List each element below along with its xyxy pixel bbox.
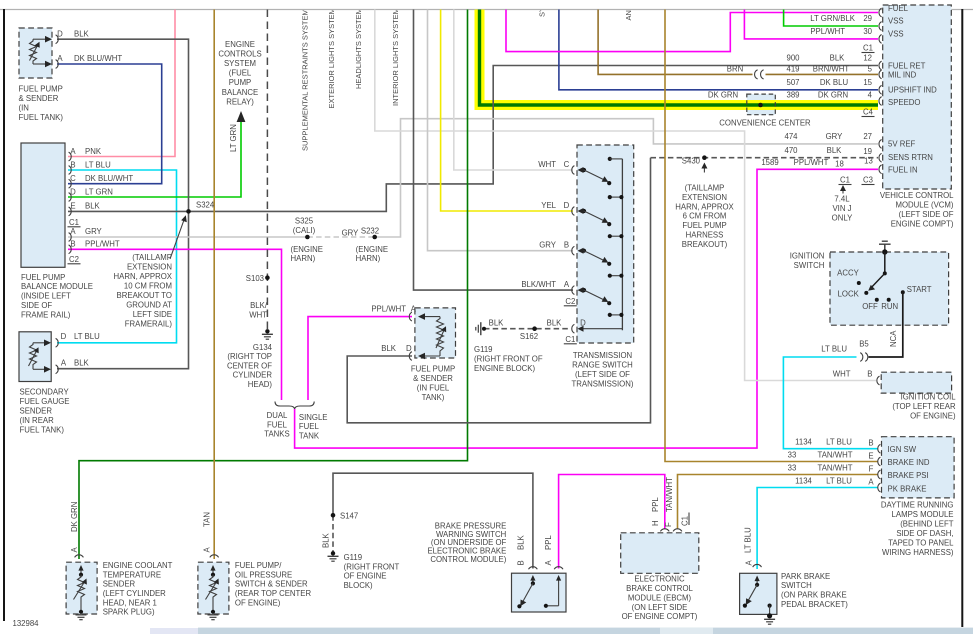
- svg-text:SPARK PLUG): SPARK PLUG): [103, 608, 155, 617]
- svg-text:S232: S232: [361, 226, 379, 235]
- splice S325: [305, 235, 310, 240]
- svg-text:BRAKE CONTROL: BRAKE CONTROL: [626, 584, 693, 593]
- svg-text:S103: S103: [246, 274, 264, 283]
- wire: DK BLU to VCM pin15 UPSHIFT IND: [559, 10, 878, 90]
- svg-text:S147: S147: [340, 512, 358, 521]
- svg-text:TAN/WHT: TAN/WHT: [818, 450, 853, 459]
- wire: LT GRN/BLK to VCM pin29 VSS: [784, 10, 878, 27]
- vehicle control module (VCM): [879, 5, 951, 189]
- svg-text:TANK): TANK): [422, 393, 445, 402]
- svg-text:LT BLU: LT BLU: [85, 160, 111, 169]
- svg-text:BREAKOUT TO: BREAKOUT TO: [117, 291, 172, 300]
- svg-text:B5: B5: [859, 340, 869, 349]
- svg-text:WIRING HARNESS): WIRING HARNESS): [882, 548, 954, 557]
- svg-text:ENGINE COOLANT: ENGINE COOLANT: [103, 561, 173, 570]
- svg-text:FRAME RAIL): FRAME RAIL): [21, 311, 71, 320]
- svg-text:LEFT SIDE: LEFT SIDE: [133, 310, 172, 319]
- svg-text:OFF: OFF: [862, 302, 878, 311]
- svg-text:GROUND AT: GROUND AT: [126, 300, 172, 309]
- svg-text:HEAD): HEAD): [248, 380, 273, 389]
- wire: speedo highlighted DK GRN 389 (yellow highlight): [480, 10, 879, 106]
- svg-text:419: 419: [786, 65, 799, 74]
- svg-text:S325: S325: [295, 217, 314, 226]
- svg-text:HARN, APPROX: HARN, APPROX: [114, 272, 173, 281]
- svg-text:TANK: TANK: [299, 432, 320, 441]
- svg-text:FUEL PUMP: FUEL PUMP: [19, 85, 63, 94]
- svg-text:D: D: [70, 187, 76, 196]
- svg-text:FUEL RET: FUEL RET: [888, 62, 926, 71]
- svg-text:1134: 1134: [795, 437, 812, 446]
- engine coolant temperature sender: [66, 555, 97, 620]
- svg-text:DK GRN: DK GRN: [70, 502, 79, 532]
- splice S430: [702, 155, 707, 160]
- svg-text:132984: 132984: [13, 619, 40, 628]
- wire: BLK dashed S147 to G119: [332, 515, 334, 551]
- svg-text:OIL PRESSURE: OIL PRESSURE: [235, 570, 292, 579]
- ignition switch: [830, 241, 949, 325]
- wire: PPL/WHT to VCM pin30 VSS: [744, 10, 878, 39]
- svg-text:TAN/WHT: TAN/WHT: [818, 463, 853, 472]
- svg-text:7.4L: 7.4L: [834, 195, 850, 204]
- svg-text:BLK/: BLK/: [250, 301, 268, 310]
- svg-text:SWITCH: SWITCH: [794, 261, 825, 270]
- svg-text:(ENGINE: (ENGINE: [356, 245, 389, 254]
- svg-text:PPL: PPL: [544, 535, 553, 550]
- svg-text:GRY: GRY: [342, 229, 360, 238]
- svg-text:S162: S162: [520, 332, 538, 341]
- svg-text:A: A: [868, 477, 874, 486]
- svg-text:MODULE (VCM): MODULE (VCM): [895, 201, 953, 210]
- ground G119 lower: [328, 551, 339, 561]
- svg-text:TAN/WHT: TAN/WHT: [665, 477, 674, 512]
- svg-text:LOCK: LOCK: [838, 289, 860, 298]
- wire: TAN/WHT 33 top to DRL E BRAKE IND: [665, 10, 878, 462]
- wire: WHT to range switch C: [454, 10, 573, 171]
- svg-text:HEAD, NEAR 1: HEAD, NEAR 1: [103, 598, 157, 607]
- wire: DK BLU/WHT sender A to module C: [57, 64, 162, 184]
- svg-text:BREAKOUT): BREAKOUT): [682, 240, 728, 249]
- svg-text:(IN REAR: (IN REAR: [20, 416, 55, 425]
- convenience center fill: [747, 94, 776, 115]
- svg-text:1589: 1589: [761, 158, 778, 167]
- svg-text:A: A: [544, 560, 553, 566]
- svg-text:IGN SW: IGN SW: [888, 445, 917, 454]
- svg-text:BLK: BLK: [85, 202, 101, 211]
- svg-text:D: D: [580, 319, 586, 328]
- svg-text:SECONDARY: SECONDARY: [20, 388, 70, 397]
- ground G134: [262, 329, 273, 339]
- svg-text:A: A: [745, 560, 754, 566]
- svg-text:HARN): HARN): [356, 254, 381, 263]
- wire: BLK dashed G119 to range switch D via S162: [484, 328, 571, 330]
- fuel pump balance module: [21, 143, 71, 267]
- wire: TAN/WHT 33 DRL F to EBCM F: [678, 475, 879, 529]
- svg-text:SIDE OF: SIDE OF: [21, 301, 52, 310]
- wire: BLK brake pressure switch B to S147: [333, 473, 533, 568]
- svg-text:INTERIOR LIGHTS SYSTEM: INTERIOR LIGHTS SYSTEM: [391, 8, 400, 106]
- svg-text:SINGLE: SINGLE: [299, 413, 328, 422]
- svg-text:GRY: GRY: [539, 241, 557, 250]
- svg-text:ENGINE: ENGINE: [225, 40, 255, 49]
- svg-text:D: D: [406, 344, 412, 353]
- wire: PPL/WHT module C2-B to dual-tank brace: [68, 249, 282, 400]
- wire: LT BLU 1134 DRL A to park brake switch: [757, 488, 878, 570]
- svg-text:B: B: [516, 560, 525, 565]
- svg-text:HEADLIGHTS SYSTEM: HEADLIGHTS SYSTEM: [354, 8, 363, 89]
- svg-text:LT BLU: LT BLU: [744, 527, 753, 553]
- svg-text:B: B: [867, 370, 872, 379]
- wire: LT GRN module D to engine controls arrow: [68, 121, 241, 197]
- wire: BLK 470 dashed to VCM pin19 SENS RTRN: [651, 157, 879, 159]
- svg-text:C2: C2: [565, 297, 575, 306]
- svg-text:15: 15: [863, 78, 872, 87]
- svg-text:TAPED TO PANEL: TAPED TO PANEL: [888, 539, 954, 548]
- svg-text:BLK: BLK: [322, 532, 331, 548]
- svg-text:BLK: BLK: [381, 344, 397, 353]
- svg-text:4: 4: [868, 91, 873, 100]
- splice S162: [532, 326, 537, 331]
- svg-text:E: E: [868, 451, 873, 460]
- svg-text:SIDE OF DASH,: SIDE OF DASH,: [896, 529, 953, 538]
- svg-text:(LEFT CYLINDER: (LEFT CYLINDER: [103, 589, 166, 598]
- svg-text:SUPPLEMENTAL RESTRAINTS SYSTEM: SUPPLEMENTAL RESTRAINTS SYSTEM: [301, 9, 310, 151]
- svg-text:10 CM FROM: 10 CM FROM: [124, 281, 172, 290]
- svg-text:MIL IND: MIL IND: [888, 71, 917, 80]
- splice S103: [265, 275, 270, 280]
- svg-text:(LEFT SIDE OF: (LEFT SIDE OF: [575, 370, 630, 379]
- wire: GRY module A to VCM pin27 5V REF: [68, 119, 878, 237]
- svg-text:BALANCE MODULE: BALANCE MODULE: [21, 282, 93, 291]
- svg-text:C2: C2: [69, 255, 79, 264]
- svg-text:WHT: WHT: [833, 370, 851, 379]
- svg-text:PUMP: PUMP: [229, 78, 252, 87]
- svg-text:D: D: [57, 29, 63, 38]
- svg-text:(LEFT SIDE OF: (LEFT SIDE OF: [899, 210, 954, 219]
- svg-text:LT BLU: LT BLU: [821, 345, 847, 354]
- svg-text:33: 33: [788, 463, 797, 472]
- svg-text:HARNESS: HARNESS: [686, 231, 724, 240]
- svg-text:CENTER OF: CENTER OF: [227, 361, 272, 370]
- wire: NCA ignition switch START to B5: [869, 292, 903, 357]
- svg-text:SENDER: SENDER: [20, 406, 53, 415]
- svg-text:BLOCK): BLOCK): [344, 581, 373, 590]
- svg-text:HARN, APPROX: HARN, APPROX: [675, 202, 734, 211]
- svg-text:FUEL PUMP/: FUEL PUMP/: [235, 561, 282, 570]
- svg-text:PPL/WHT: PPL/WHT: [810, 27, 845, 36]
- svg-text:(IN: (IN: [19, 104, 29, 113]
- svg-text:UPSHIFT IND: UPSHIFT IND: [888, 86, 937, 95]
- wire: WHT to ignition coil B: [375, 10, 876, 381]
- svg-text:SWITCH: SWITCH: [781, 581, 812, 590]
- svg-text:C4: C4: [863, 108, 874, 117]
- wire: BLK/WHT dashed top to G134 via S103: [266, 10, 268, 330]
- svg-text:BLK: BLK: [74, 29, 90, 38]
- svg-text:A: A: [70, 227, 76, 236]
- svg-text:G134: G134: [253, 343, 273, 352]
- svg-text:CYLINDER: CYLINDER: [233, 371, 273, 380]
- svg-text:C1: C1: [863, 44, 873, 53]
- svg-text:DK BLU/WHT: DK BLU/WHT: [74, 54, 122, 63]
- svg-text:SPEEDO: SPEEDO: [888, 98, 921, 107]
- svg-text:START: START: [907, 285, 932, 294]
- splice S232: [372, 235, 377, 240]
- svg-text:NCA: NCA: [889, 330, 898, 347]
- svg-text:LT BLU: LT BLU: [826, 476, 852, 485]
- svg-text:YEL: YEL: [541, 201, 556, 210]
- wire: TAN to oil pressure sender A: [213, 10, 215, 560]
- svg-text:SYSTEM: SYSTEM: [224, 59, 256, 68]
- brake pressure warning switch: [512, 567, 567, 612]
- svg-text:EXTERIOR LIGHTS SYSTEM: EXTERIOR LIGHTS SYSTEM: [327, 8, 336, 108]
- svg-text:TEMPERATURE: TEMPERATURE: [103, 570, 161, 579]
- svg-text:FUEL PUMP: FUEL PUMP: [682, 221, 726, 230]
- svg-text:ACCY: ACCY: [837, 268, 859, 277]
- svg-text:D: D: [61, 332, 67, 341]
- svg-text:C1: C1: [840, 176, 850, 185]
- svg-text:GRY: GRY: [85, 227, 103, 236]
- svg-text:VSS: VSS: [888, 17, 904, 26]
- svg-text:IGNITION: IGNITION: [790, 252, 825, 261]
- bottom scrollbar strip: [198, 628, 973, 634]
- svg-text:A: A: [70, 147, 76, 156]
- svg-text:MODULE (EBCM): MODULE (EBCM): [628, 593, 692, 602]
- svg-text:FRAMERAIL): FRAMERAIL): [125, 319, 173, 328]
- svg-text:BLK: BLK: [827, 146, 843, 155]
- svg-text:DK GRN: DK GRN: [708, 91, 738, 100]
- svg-text:(TAILLAMP: (TAILLAMP: [685, 183, 725, 192]
- svg-text:FUEL: FUEL: [267, 420, 288, 429]
- secondary fuel gauge sender: [19, 332, 58, 382]
- svg-text:G119: G119: [344, 553, 363, 562]
- fuel pump & sender (in fuel tank) middle: [409, 308, 455, 361]
- transmission range switch: [572, 145, 634, 343]
- page right border: [961, 9, 963, 627]
- svg-text:5: 5: [868, 65, 873, 74]
- fuel pump / oil pressure switch & sender: [198, 555, 229, 620]
- svg-text:33: 33: [788, 450, 797, 459]
- wire: PPL/WHT to VCM FUEL pin: [506, 10, 878, 52]
- svg-text:27: 27: [863, 132, 872, 141]
- svg-text:TRANSMISSION): TRANSMISSION): [572, 380, 634, 389]
- svg-text:E: E: [70, 202, 75, 211]
- svg-text:389: 389: [786, 91, 799, 100]
- svg-text:(CALI): (CALI): [293, 226, 316, 235]
- svg-text:FUEL: FUEL: [888, 4, 909, 13]
- svg-text:BLK: BLK: [830, 54, 846, 63]
- splice S324: [186, 209, 191, 214]
- svg-text:PPL/WHT: PPL/WHT: [85, 240, 120, 249]
- svg-text:12: 12: [863, 54, 872, 63]
- svg-text:FUEL TANK): FUEL TANK): [20, 425, 65, 434]
- svg-text:WHT: WHT: [538, 160, 556, 169]
- svg-text:29: 29: [863, 14, 872, 23]
- svg-text:BRAKE IND: BRAKE IND: [888, 458, 930, 467]
- svg-text:(FUEL: (FUEL: [229, 69, 252, 78]
- wire: LT BLU 1134 B5 to DRL B IGN SW: [783, 357, 878, 449]
- svg-text:& SENDER: & SENDER: [413, 374, 453, 383]
- svg-text:(REAR TOP CENTER: (REAR TOP CENTER: [235, 589, 312, 598]
- svg-text:PK BRAKE: PK BRAKE: [888, 484, 927, 493]
- svg-text:OF ENGINE): OF ENGINE): [910, 411, 956, 420]
- svg-text:507: 507: [786, 78, 799, 87]
- svg-text:LT GRN: LT GRN: [85, 187, 113, 196]
- svg-text:(RIGHT TOP: (RIGHT TOP: [227, 352, 272, 361]
- wire: BLK 470 fuel sender D to SENS RTRN (solid part): [347, 158, 650, 423]
- wire: PPL brake pressure switch A to EBCM H: [559, 475, 665, 569]
- svg-text:6 CM FROM: 6 CM FROM: [683, 212, 727, 221]
- svg-text:CONVENIENCE CENTER: CONVENIENCE CENTER: [719, 119, 811, 128]
- svg-text:(TOP LEFT REAR: (TOP LEFT REAR: [892, 402, 956, 411]
- svg-text:SENS RTRN: SENS RTRN: [888, 153, 933, 162]
- svg-text:FUEL: FUEL: [299, 422, 320, 431]
- wire: PPL/WHT 1589 brace to VCM FUEL IN: [295, 169, 878, 448]
- svg-text:S324: S324: [196, 201, 215, 210]
- svg-text:LT GRN: LT GRN: [229, 124, 238, 152]
- svg-text:(ON PARK BRAKE: (ON PARK BRAKE: [781, 591, 847, 600]
- inline connector B5: [860, 353, 868, 362]
- svg-text:& SENDER: & SENDER: [19, 94, 59, 103]
- svg-text:A: A: [411, 305, 417, 314]
- svg-text:DK BLU/WHT: DK BLU/WHT: [85, 174, 133, 183]
- wire: DK GRN to coolant sender A: [79, 10, 468, 560]
- svg-text:18: 18: [835, 160, 844, 169]
- wire: GRY to range switch B: [428, 10, 574, 251]
- svg-text:19: 19: [863, 147, 872, 156]
- svg-text:BLK: BLK: [74, 358, 90, 367]
- svg-text:BRN: BRN: [727, 65, 743, 74]
- svg-text:DAYTIME RUNNING: DAYTIME RUNNING: [881, 501, 954, 510]
- svg-text:900: 900: [786, 54, 800, 63]
- svg-text:LT BLU: LT BLU: [74, 332, 100, 341]
- svg-text:BLK: BLK: [489, 319, 505, 328]
- fuel pump & sender (in fuel tank) top-left: [19, 28, 58, 78]
- svg-text:13: 13: [864, 157, 873, 166]
- svg-text:C3: C3: [863, 176, 873, 185]
- note 7.4L VIN J ONLY: [842, 188, 844, 194]
- svg-text:ENGINE COMPT): ENGINE COMPT): [891, 220, 954, 229]
- svg-text:(BEHIND LEFT: (BEHIND LEFT: [900, 520, 954, 529]
- svg-text:PEDAL BRACKET): PEDAL BRACKET): [781, 600, 848, 609]
- daytime running lamps module: [878, 437, 954, 498]
- electronic brake control module (EBCM): [621, 529, 699, 574]
- svg-text:B: B: [868, 438, 873, 447]
- svg-text:D: D: [564, 201, 570, 210]
- svg-text:EXTENSION: EXTENSION: [127, 263, 172, 272]
- svg-text:VIN J: VIN J: [832, 204, 851, 213]
- svg-text:C1: C1: [681, 516, 690, 526]
- wire: BLK sender D / secondary A vertical through S324: [57, 39, 189, 369]
- svg-text:FUEL GAUGE: FUEL GAUGE: [20, 397, 70, 406]
- svg-text:H: H: [651, 520, 660, 526]
- svg-text:VEHICLE CONTROL: VEHICLE CONTROL: [880, 191, 954, 200]
- svg-text:EXTENSION: EXTENSION: [682, 193, 727, 202]
- svg-text:1134: 1134: [795, 476, 812, 485]
- wire: BLK module E to VCM pin12 FUEL RET: [68, 66, 878, 212]
- svg-text:BRN/WHT: BRN/WHT: [813, 65, 850, 74]
- svg-text:LT BLU: LT BLU: [826, 437, 852, 446]
- svg-text:A: A: [564, 280, 570, 289]
- svg-text:LT GRN/BLK: LT GRN/BLK: [810, 14, 856, 23]
- svg-text:PNK: PNK: [85, 147, 102, 156]
- brace dual/single fuel tanks: [275, 402, 314, 410]
- arrowhead LT GRN: [237, 111, 246, 122]
- svg-text:C: C: [564, 160, 570, 169]
- svg-text:C: C: [70, 174, 76, 183]
- svg-text:C1: C1: [69, 218, 79, 227]
- svg-text:ENGINE BLOCK): ENGINE BLOCK): [474, 364, 535, 373]
- svg-text:(RIGHT FRONT OF: (RIGHT FRONT OF: [474, 354, 543, 363]
- svg-text:5V REF: 5V REF: [888, 140, 916, 149]
- svg-text:RELAY): RELAY): [226, 97, 254, 106]
- inline connector on BRN wire: [755, 70, 764, 79]
- svg-text:BLK/WHT: BLK/WHT: [521, 280, 556, 289]
- svg-text:G119: G119: [474, 345, 493, 354]
- ground G119 at S162: [476, 322, 486, 335]
- svg-text:A: A: [57, 54, 63, 63]
- park brake switch: [740, 564, 777, 624]
- svg-text:BLK: BLK: [547, 319, 563, 328]
- svg-text:S430: S430: [682, 157, 701, 166]
- page left border: [3, 9, 5, 621]
- svg-text:B: B: [70, 240, 75, 249]
- svg-text:ELECTRONIC: ELECTRONIC: [634, 575, 685, 584]
- svg-text:WHT: WHT: [249, 311, 267, 320]
- svg-text:(ENGINE: (ENGINE: [291, 245, 324, 254]
- svg-text:(IN FUEL: (IN FUEL: [417, 384, 450, 393]
- svg-text:F: F: [869, 464, 874, 473]
- wire: PNK module A to top: [68, 10, 175, 157]
- system label SUPPLEMENTAL RESTRAINTS SYSTEM: [301, 0, 634, 151]
- svg-text:LAMPS MODULE: LAMPS MODULE: [892, 510, 954, 519]
- svg-text:RANGE SWITCH: RANGE SWITCH: [572, 361, 633, 370]
- svg-text:SWITCH & SENDER: SWITCH & SENDER: [235, 580, 308, 589]
- svg-text:(ON LEFT SIDE: (ON LEFT SIDE: [632, 603, 688, 612]
- svg-text:PPL/WHT: PPL/WHT: [371, 305, 406, 314]
- svg-text:BRAKE PSI: BRAKE PSI: [888, 471, 929, 480]
- svg-text:(RIGHT FRONT: (RIGHT FRONT: [344, 562, 400, 571]
- svg-text:TANKS: TANKS: [264, 430, 289, 439]
- page top border: [0, 9, 973, 11]
- svg-text:PARK BRAKE: PARK BRAKE: [781, 572, 830, 581]
- svg-text:(INSIDE LEFT: (INSIDE LEFT: [21, 292, 71, 301]
- svg-text:DK BLU: DK BLU: [820, 78, 849, 87]
- splice S147: [331, 513, 336, 518]
- svg-text:CONTROL MODULE): CONTROL MODULE): [430, 555, 506, 564]
- svg-text:DK GRN: DK GRN: [818, 91, 848, 100]
- svg-text:DUAL: DUAL: [267, 411, 288, 420]
- svg-text:SENDER: SENDER: [103, 580, 136, 589]
- svg-text:HARN): HARN): [291, 254, 316, 263]
- wire: LT BLU module B to secondary sender D: [57, 170, 177, 343]
- svg-text:VSS: VSS: [888, 30, 904, 39]
- wire: BRN 419 BRN/WHT to VCM pin5 MIL IND: [598, 10, 878, 75]
- wire: PPL/WHT fuel sender A to brace: [308, 317, 412, 400]
- svg-text:FUEL TANK): FUEL TANK): [19, 113, 64, 122]
- svg-text:FUEL IN: FUEL IN: [888, 166, 918, 175]
- svg-text:(TAILLAMP: (TAILLAMP: [132, 253, 172, 262]
- svg-text:FUEL PUMP: FUEL PUMP: [21, 273, 65, 282]
- svg-text:A: A: [61, 358, 67, 367]
- svg-text:B: B: [70, 160, 75, 169]
- svg-text:BALANCE: BALANCE: [222, 88, 258, 97]
- svg-text:FUEL PUMP: FUEL PUMP: [411, 365, 455, 374]
- ignition coil: [877, 372, 952, 393]
- svg-text:TRANSMISSION: TRANSMISSION: [573, 351, 632, 360]
- svg-text:ONLY: ONLY: [832, 214, 853, 223]
- svg-text:A: A: [203, 547, 212, 553]
- svg-text:B: B: [564, 241, 569, 250]
- svg-text:PPL: PPL: [651, 497, 660, 512]
